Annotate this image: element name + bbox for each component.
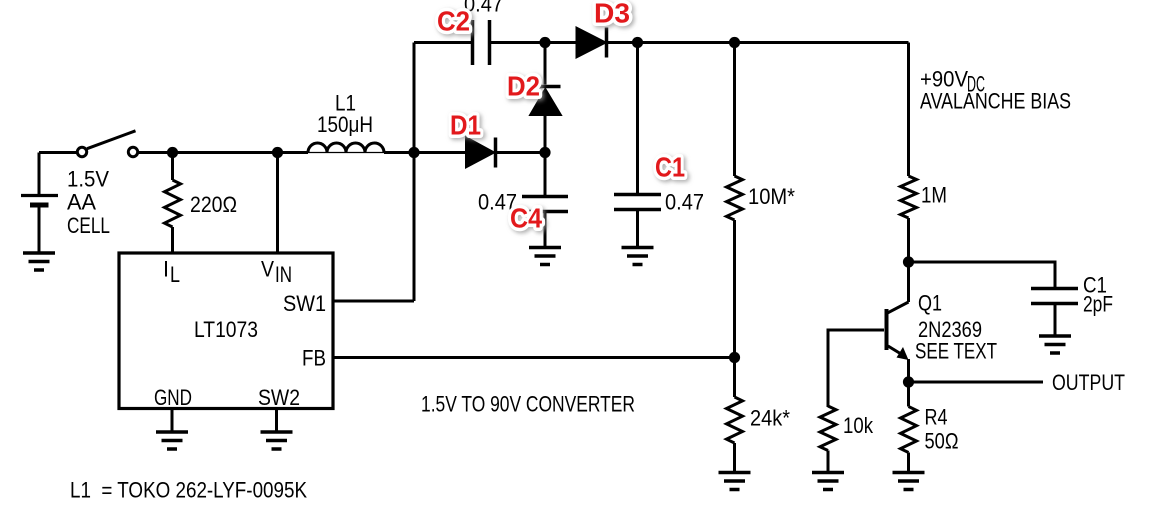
label Q1 2N2369 SEE TEXT <box>915 291 997 364</box>
ground under GND pin <box>156 432 188 449</box>
wire GND pin <box>171 409 174 432</box>
wire C2 to D3 <box>491 41 577 44</box>
svg-text:150μH: 150μH <box>317 112 373 137</box>
svg-text:SEE TEXT: SEE TEXT <box>915 339 997 364</box>
svg-text:0.47: 0.47 <box>665 190 704 215</box>
resistor 1M <box>901 43 917 263</box>
op-amp U1 LT1073 box <box>119 253 333 409</box>
svg-text:L: L <box>170 262 180 287</box>
svg-text:I: I <box>163 257 169 282</box>
ground under R4 <box>893 473 925 490</box>
capacitor C2 0.47 <box>473 20 490 65</box>
resistor 10M* <box>727 43 743 358</box>
svg-text:1M: 1M <box>921 183 947 208</box>
svg-text:GND: GND <box>154 385 192 410</box>
svg-text:LT1073: LT1073 <box>194 317 258 342</box>
svg-text:CELL: CELL <box>67 213 110 238</box>
svg-text:SW1: SW1 <box>283 291 326 316</box>
svg-text:AVALANCHE BIAS: AVALANCHE BIAS <box>920 89 1071 114</box>
node 10M tap <box>729 37 740 48</box>
node L1/SW1/C2 junction <box>408 147 419 158</box>
svg-text:Q1: Q1 <box>918 291 942 316</box>
svg-text:50Ω: 50Ω <box>925 429 959 454</box>
label +90VDC <box>920 67 985 97</box>
svg-text:1.5V: 1.5V <box>67 167 109 192</box>
wire output <box>909 381 1044 384</box>
svg-text:OUTPUT: OUTPUT <box>1052 370 1125 395</box>
svg-text:10M*: 10M* <box>748 184 795 209</box>
wire top rail left segment <box>414 41 471 44</box>
resistor 10k <box>820 406 836 471</box>
diode D1 <box>467 138 546 168</box>
transistor Q1 2N2369 <box>887 262 909 382</box>
node collector/2pF junction <box>903 256 914 267</box>
ground under 2pF <box>1039 336 1071 353</box>
svg-text:24k*: 24k* <box>750 406 790 431</box>
svg-text:2pF: 2pF <box>1083 292 1113 317</box>
ground under SW2 pin <box>261 432 293 449</box>
svg-text:V: V <box>261 257 274 282</box>
node emitter/output junction <box>903 376 914 387</box>
battery label 1.5V AA CELL <box>67 167 110 239</box>
node C1 tap <box>632 37 643 48</box>
wire SW1 <box>333 300 414 303</box>
pin labels LT1073 <box>154 257 326 411</box>
svg-text:D2: D2 <box>507 71 540 102</box>
label R4 50ohm <box>925 405 959 454</box>
node D1/D2/C4 junction <box>539 147 550 158</box>
node 220ohm tap <box>167 147 178 158</box>
node FB junction <box>729 352 740 363</box>
node VIN tap <box>272 147 283 158</box>
wire vertical top-rail to SW1 <box>413 43 416 302</box>
wire battery to switch <box>39 151 77 154</box>
svg-text:10k: 10k <box>843 413 874 438</box>
node C2/D2 junction <box>539 37 550 48</box>
svg-text:AA: AA <box>67 190 96 215</box>
wire base to 10k <box>828 330 884 407</box>
ground under 10k <box>812 473 844 490</box>
svg-text:FB: FB <box>302 346 326 371</box>
wire FB <box>333 356 735 359</box>
diode D3 <box>577 28 607 58</box>
diode D2 <box>530 43 561 153</box>
svg-text:C1: C1 <box>655 152 685 183</box>
inductor L1 150uH <box>308 143 384 153</box>
wire node to 2pF cap <box>909 262 1056 287</box>
resistor 24k* <box>727 358 743 472</box>
ground under C4 <box>529 248 561 265</box>
svg-text:IN: IN <box>275 262 292 287</box>
svg-text:220Ω: 220Ω <box>190 192 237 217</box>
label L1 150uH <box>317 91 373 138</box>
svg-text:R4: R4 <box>925 405 948 430</box>
svg-text:SW2: SW2 <box>258 385 300 410</box>
resistor R4 50ohm <box>901 382 917 471</box>
svg-text:C2: C2 <box>437 6 470 37</box>
wire SW2 pin <box>275 409 278 432</box>
resistor 220ohm <box>165 153 181 255</box>
wire D3 to right corner <box>607 41 909 44</box>
ground under battery <box>23 253 55 270</box>
switch S1 <box>77 131 137 157</box>
svg-text:D3: D3 <box>594 0 630 29</box>
ground under 24k <box>719 473 751 490</box>
svg-text:C4: C4 <box>510 203 542 234</box>
capacitor C1 0.47 <box>614 43 661 248</box>
svg-text:L1 = TOKO 262-LYF-0095K: L1 = TOKO 262-LYF-0095K <box>70 478 307 503</box>
svg-text:1.5V TO 90V CONVERTER: 1.5V TO 90V CONVERTER <box>421 392 635 417</box>
label C1 2pF <box>1083 273 1113 317</box>
capacitor C1 2pF <box>1031 289 1078 336</box>
wire L1 to D1 <box>384 151 467 154</box>
battery B1 1.5V AA CELL <box>21 153 58 252</box>
wire VIN pin <box>276 153 279 255</box>
svg-text:D1: D1 <box>450 110 481 141</box>
ground under C1 <box>622 248 654 265</box>
capacitor C4 0.47 <box>522 153 568 248</box>
wire switch to L1 <box>139 151 309 154</box>
